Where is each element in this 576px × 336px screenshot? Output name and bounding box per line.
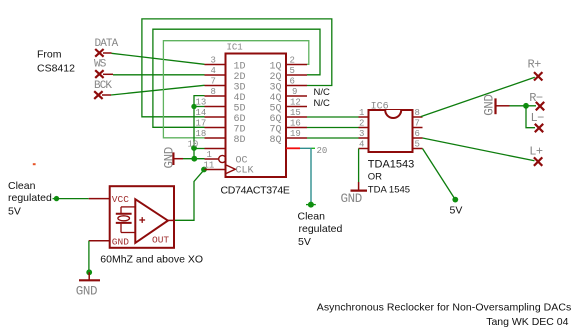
svg-text:2: 2 bbox=[359, 119, 364, 129]
svg-text:6: 6 bbox=[415, 129, 420, 139]
junction R-/L- node bbox=[523, 103, 529, 109]
svg-text:7: 7 bbox=[415, 119, 420, 129]
wire loop A 3Q(pin6) to 6D(pin14) bbox=[142, 19, 332, 117]
svg-text:CLK: CLK bbox=[236, 166, 254, 177]
svg-text:3: 3 bbox=[359, 129, 364, 139]
svg-text:TDA 1545: TDA 1545 bbox=[368, 185, 410, 196]
wire DATA to IC1 pin3 bbox=[112, 53, 205, 64]
svg-text:2: 2 bbox=[290, 56, 295, 66]
svg-text:4: 4 bbox=[211, 66, 216, 76]
net flag X L+ bbox=[534, 157, 542, 165]
junction XO gnd bbox=[86, 269, 92, 275]
wire branch pin13 bbox=[194, 106, 205, 108]
ground symbol under IC6 bbox=[341, 182, 368, 206]
wire loop C 1Q(pin2) to 8D(pin18) bbox=[163, 41, 308, 138]
svg-text:7Q: 7Q bbox=[270, 124, 282, 135]
svg-text:5Q: 5Q bbox=[270, 103, 282, 114]
svg-text:11: 11 bbox=[204, 161, 215, 171]
stub WS bbox=[103, 73, 113, 75]
wires IC1 Q to IC6 pins 1-3 bbox=[307, 117, 359, 138]
wire pin1 row to GND symbol bbox=[183, 158, 205, 160]
svg-text:16: 16 bbox=[290, 119, 301, 129]
net flag X L- bbox=[535, 124, 543, 132]
svg-text:2D: 2D bbox=[234, 72, 246, 83]
ground symbol right outputs (rotated) bbox=[483, 94, 510, 115]
svg-text:Tang WK DEC 04: Tang WK DEC 04 bbox=[486, 316, 568, 328]
IC6 pin stubs bbox=[359, 117, 423, 149]
IC1 left pin numbers bbox=[188, 56, 216, 171]
annotation From CS8412 bbox=[37, 49, 75, 75]
svg-text:5: 5 bbox=[415, 140, 420, 150]
svg-text:BCK: BCK bbox=[94, 80, 112, 92]
svg-text:L−: L− bbox=[531, 111, 545, 125]
svg-text:1: 1 bbox=[359, 108, 364, 118]
svg-text:5V: 5V bbox=[298, 236, 311, 248]
svg-text:14: 14 bbox=[196, 108, 207, 118]
svg-text:GND: GND bbox=[483, 94, 497, 115]
IC1 pin name labels left bbox=[234, 61, 254, 176]
svg-text:R+: R+ bbox=[528, 58, 542, 72]
svg-text:8: 8 bbox=[415, 108, 420, 118]
junction 5V node bbox=[452, 197, 458, 203]
svg-text:L+: L+ bbox=[529, 145, 543, 159]
svg-text:N/C: N/C bbox=[314, 98, 331, 109]
svg-text:regulated: regulated bbox=[299, 223, 343, 235]
svg-text:6: 6 bbox=[290, 77, 295, 87]
IC1 pin20 stub (bright red) bbox=[286, 147, 300, 149]
junction at pin1 bbox=[191, 156, 197, 162]
annotation Clean regulated 5V (middle) bbox=[298, 211, 343, 248]
svg-text:DATA: DATA bbox=[95, 38, 119, 50]
XO VCC pin bbox=[89, 198, 110, 200]
svg-text:GND: GND bbox=[76, 285, 97, 299]
stray mark bbox=[33, 163, 36, 165]
svg-text:3: 3 bbox=[211, 56, 216, 66]
svg-text:8D: 8D bbox=[234, 135, 246, 146]
stub DATA bbox=[103, 52, 112, 54]
svg-text:5: 5 bbox=[290, 66, 295, 76]
svg-text:13: 13 bbox=[196, 98, 207, 108]
IC6 pin numbers bbox=[359, 108, 420, 150]
svg-text:4Q: 4Q bbox=[270, 93, 282, 104]
svg-text:8Q: 8Q bbox=[270, 135, 282, 146]
junction at pin10 bbox=[191, 145, 197, 151]
wire IC6 pin5 to 5V bbox=[423, 149, 456, 200]
wire IC6 pin8 to R+ bbox=[421, 77, 535, 116]
wire clean5V to XO VCC bbox=[57, 198, 89, 200]
svg-text:IC1: IC1 bbox=[227, 43, 243, 53]
svg-text:GND: GND bbox=[341, 192, 362, 206]
net flag X WS bbox=[95, 70, 103, 78]
IC1 right pin stubs bbox=[286, 65, 307, 139]
IC1 right pin numbers bbox=[290, 56, 328, 156]
svg-text:5D: 5D bbox=[234, 103, 246, 114]
svg-text:CD74ACT374E: CD74ACT374E bbox=[221, 185, 290, 197]
svg-text:1Q: 1Q bbox=[270, 61, 282, 72]
wire XO GND down bbox=[88, 241, 90, 272]
svg-text:4: 4 bbox=[359, 140, 364, 150]
svg-text:CS8412: CS8412 bbox=[37, 63, 75, 75]
junction at pin11 bbox=[201, 167, 207, 173]
IC1 pin name labels right bbox=[270, 61, 282, 146]
wire loop B 2Q(pin5) to 7D(pin17) bbox=[153, 29, 320, 127]
svg-text:6Q: 6Q bbox=[270, 114, 282, 125]
svg-text:OR: OR bbox=[368, 172, 382, 183]
junction clean 5V node bbox=[308, 202, 314, 208]
ground symbol left of IC1 pin1 (rotated) bbox=[163, 147, 184, 168]
net flag X BCK bbox=[94, 91, 102, 99]
svg-text:5V: 5V bbox=[8, 206, 21, 218]
IC1 CD74ACT374E body bbox=[226, 43, 287, 178]
wire node down to L- bbox=[526, 106, 535, 128]
svg-text:3D: 3D bbox=[234, 82, 246, 93]
XO GND pin bbox=[89, 240, 110, 242]
IC1 CLK triangle pin11 bbox=[226, 165, 236, 174]
svg-text:6D: 6D bbox=[234, 114, 246, 125]
IC6 TDA1543 body bbox=[369, 102, 413, 153]
svg-text:18: 18 bbox=[196, 129, 207, 139]
svg-text:Clean: Clean bbox=[8, 180, 36, 192]
wire ground chain to 4D/5D/GND/OC bbox=[194, 96, 205, 159]
junction clean5V left bbox=[54, 196, 59, 201]
wire nub right of pin20 corner bbox=[312, 147, 316, 149]
svg-text:15: 15 bbox=[290, 108, 301, 118]
XO amp triangle bbox=[135, 199, 168, 243]
svg-text:2Q: 2Q bbox=[270, 72, 282, 83]
wire CLK from XO to pin11 bbox=[174, 169, 205, 220]
svg-text:OUT: OUT bbox=[152, 234, 169, 245]
svg-text:12: 12 bbox=[290, 98, 301, 108]
IC1 left pin stubs bbox=[205, 65, 226, 170]
stub BCK bbox=[102, 94, 111, 96]
svg-text:5V: 5V bbox=[450, 205, 463, 217]
svg-text:3Q: 3Q bbox=[270, 82, 282, 93]
svg-text:Asynchronous Reclocker for Non: Asynchronous Reclocker for Non-Oversampl… bbox=[317, 302, 572, 314]
svg-text:19: 19 bbox=[290, 129, 301, 139]
svg-text:From: From bbox=[37, 49, 62, 61]
svg-text:8: 8 bbox=[211, 87, 216, 97]
svg-text:Clean: Clean bbox=[298, 211, 326, 223]
svg-text:7: 7 bbox=[211, 77, 216, 87]
XO OUT pin bbox=[168, 219, 174, 221]
net flag X R- bbox=[536, 102, 544, 110]
annotation Clean regulated 5V (left) bbox=[8, 180, 52, 218]
ground symbol under XO bbox=[76, 272, 100, 298]
svg-text:60MhZ and above XO: 60MhZ and above XO bbox=[100, 254, 203, 266]
wire WS to IC1 pin4 bbox=[113, 74, 205, 76]
junction at pin13 bbox=[191, 104, 196, 109]
svg-text:GND: GND bbox=[163, 147, 177, 168]
svg-text:4D: 4D bbox=[234, 93, 246, 104]
net flag X DATA bbox=[95, 49, 103, 57]
net flag X R+ bbox=[534, 72, 542, 80]
svg-text:VCC: VCC bbox=[112, 194, 129, 205]
wire pin20 to clean 5V (teal) bbox=[300, 148, 311, 204]
wire IC6 pin4 to ground bbox=[358, 149, 360, 183]
svg-text:GND: GND bbox=[112, 236, 129, 247]
XO plus sign bbox=[139, 219, 145, 221]
wire BCK to IC1 pin7 bbox=[111, 85, 205, 95]
svg-text:20: 20 bbox=[317, 146, 328, 156]
svg-text:10: 10 bbox=[188, 140, 199, 150]
svg-text:regulated: regulated bbox=[8, 192, 52, 204]
svg-text:TDA1543: TDA1543 bbox=[368, 159, 414, 171]
oscillator XO module bbox=[89, 186, 174, 248]
svg-text:WS: WS bbox=[94, 59, 107, 71]
IC1 OC bubble pin1 bbox=[219, 155, 226, 162]
svg-text:N/C: N/C bbox=[314, 87, 331, 98]
svg-text:17: 17 bbox=[196, 119, 207, 129]
wire IC6 pin6 to L+ bbox=[423, 138, 535, 161]
XO crystal bbox=[121, 206, 135, 208]
wire branch pin10 bbox=[194, 148, 205, 150]
wire gnd to R-/L- node bbox=[510, 105, 537, 107]
svg-text:1D: 1D bbox=[234, 61, 246, 72]
svg-text:7D: 7D bbox=[234, 124, 246, 135]
svg-text:9: 9 bbox=[292, 87, 297, 97]
svg-text:1: 1 bbox=[207, 150, 212, 160]
svg-text:IC6: IC6 bbox=[371, 102, 389, 113]
